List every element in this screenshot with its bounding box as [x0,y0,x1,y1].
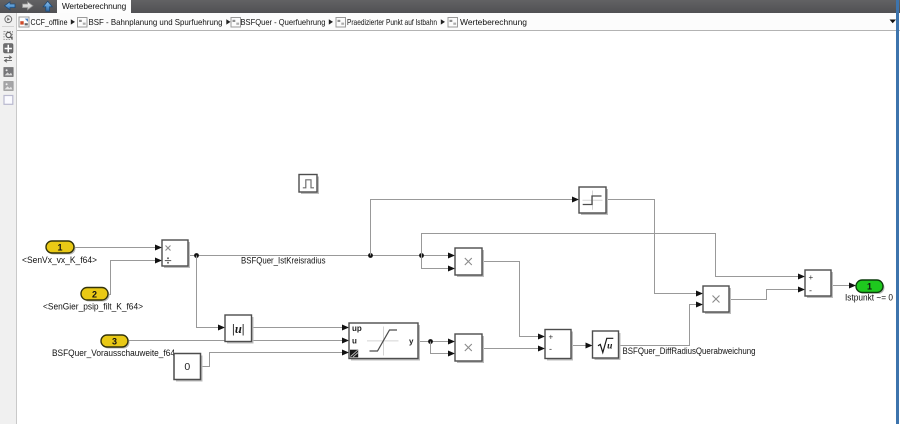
product R^2 block [455,248,484,277]
svg-text:u: u [352,337,357,346]
sqrt block [593,331,621,360]
sum2 block (+ -) [805,270,833,298]
wire node430 down to product square input2 [431,342,449,354]
outport 1 green [856,280,885,294]
node after divide [194,253,199,258]
svg-text:CCF_offline: CCF_offline [31,17,68,27]
svg-text:0: 0 [184,361,190,373]
svg-text:1: 1 [867,282,872,292]
wire node370 up to signum [371,200,573,256]
back arrow [5,2,16,10]
sidebar icons [0,13,16,113]
svg-text:-: - [549,344,552,354]
svg-text:Praedizierter Punkt auf Istbah: Praedizierter Punkt auf Istbahn [347,17,437,27]
image icon dark [4,68,13,77]
svg-text:BSFQuer_DiffRadiusQuerabweichu: BSFQuer_DiffRadiusQuerabweichung [623,346,756,356]
svg-text:+: + [549,333,554,342]
wire saturation out to product square [418,341,448,343]
top dark tab bar [0,0,900,13]
wire node421 up over to sum2 plus [422,234,799,277]
right blue edge [896,0,899,424]
image icon light [4,82,13,91]
pulse block (unconnected) [299,175,319,195]
wire sqrt out to product3 input2 [619,305,697,346]
signum block [579,187,608,215]
subsystem icon 3 [231,18,241,28]
svg-text:2: 2 [92,289,97,299]
wire abs to saturation up [252,327,343,329]
svg-text:+: + [809,273,814,282]
empty frame icon [4,96,13,105]
up arrow [43,1,52,11]
breadcrumb bar [17,13,900,31]
svg-text:-: - [809,286,812,296]
wire inport2 to divide [108,261,155,295]
wire product square out to sum1 minus [482,348,538,350]
subsystem icon 4 [336,18,346,28]
wire node421 down to product2 input2 [422,256,449,269]
separator [226,19,230,24]
wire node196 down to abs [197,256,219,328]
separator [441,19,445,24]
wire sum1 to sqrt [571,345,586,347]
subsystem icon 2 [78,18,88,28]
product square block [455,334,484,363]
svg-text:Werteberechnung: Werteberechnung [460,17,527,27]
svg-text:up: up [352,324,362,333]
wire inport3 to saturation u [128,340,342,342]
node to signum [368,253,373,258]
node after saturation [428,339,433,344]
model icon CCF_offline [19,17,29,27]
divide block U1 [162,240,190,268]
breadcrumb content svg (icons+text) [0,13,900,30]
wire constant0 to saturation lo [201,353,343,367]
wire product3 out to sum2 minus [729,290,798,300]
svg-text:u: u [607,341,612,351]
product3 block [703,286,731,314]
wire divide output main line [188,255,448,257]
inport 1 [46,241,76,255]
abs block |u| [225,315,254,344]
swap arrows icon [4,56,12,62]
forward arrow [23,2,34,10]
svg-text:1: 1 [57,242,62,252]
svg-text:<SenGier_psip_filt_K_f64>: <SenGier_psip_filt_K_f64> [43,302,143,312]
wire sum2 to outport [831,285,849,287]
node branch R [419,253,424,258]
sum1 block (+ -) [545,330,573,361]
wire inport1 to divide [74,247,155,249]
tab "Werteberechnung" [57,0,131,13]
separator [2,26,14,28]
svg-text:Istpunkt ~= 0: Istpunkt ~= 0 [845,292,893,302]
left sidebar [0,13,17,424]
inport 3 [101,335,130,349]
svg-text:BSFQuer - Querfuehrung: BSFQuer - Querfuehrung [241,17,326,27]
zoom tool icon [4,32,13,40]
svg-text:BSFQuer_IstKreisradius: BSFQuer_IstKreisradius [241,255,326,265]
svg-text:y: y [409,337,414,346]
separator [71,19,75,24]
separator [329,19,333,24]
fit-to-view icon [4,44,14,54]
svg-text:|u|: |u| [232,322,244,336]
svg-text:BSF - Bahnplanung und Spurfueh: BSF - Bahnplanung und Spurfuehrung [89,17,223,27]
dropdown triangle [890,20,897,24]
subsystem icon 5 [448,18,458,28]
collapse circled arrow icon [5,16,12,23]
saturation dynamic block [349,323,420,361]
svg-text:3: 3 [112,336,117,346]
svg-text:BSFQuer_Vorausschauweite_f64: BSFQuer_Vorausschauweite_f64 [52,348,175,358]
inport 2 [81,288,110,302]
constant 0 block [174,354,203,382]
nav arrows svg [0,0,56,13]
wire product R2 out to sum1 plus [482,262,538,337]
wire signum out to product3 input1 [606,200,696,294]
svg-text:<SenVx_vx_K_f64>: <SenVx_vx_K_f64> [22,255,97,265]
